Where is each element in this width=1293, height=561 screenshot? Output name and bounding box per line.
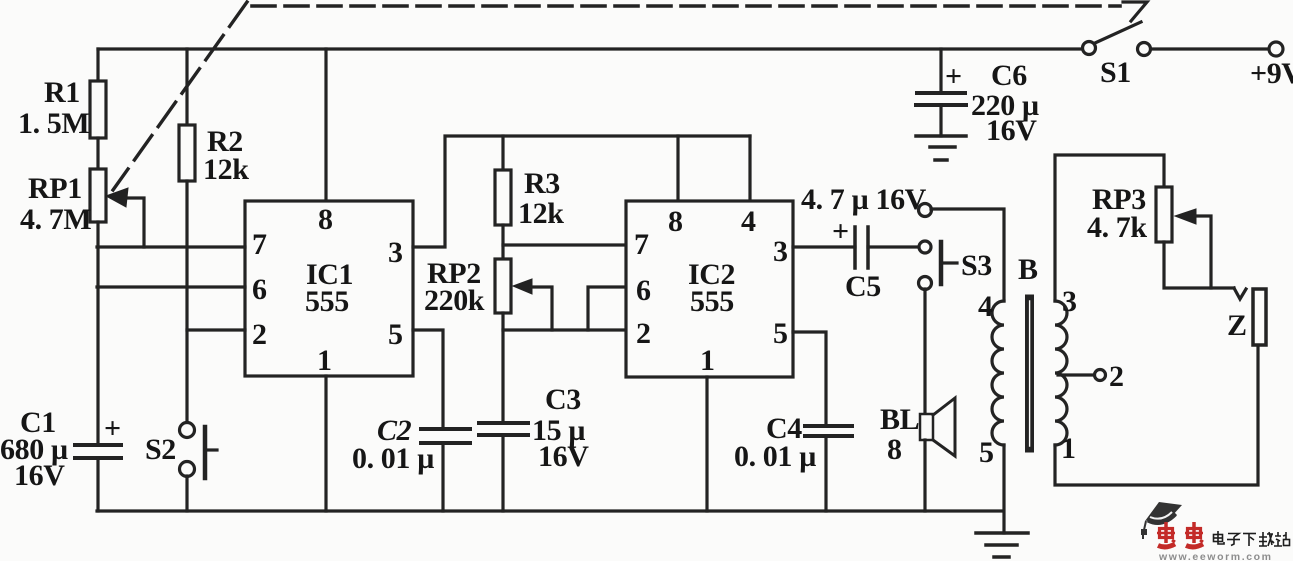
transformer B core [1025, 299, 1034, 448]
svg-text:4: 4 [978, 290, 993, 323]
jack Z body [1253, 289, 1266, 345]
capacitor C6 plates [916, 93, 966, 105]
speaker BL cone [933, 398, 955, 456]
wire RP1 wiper to pin7 line [124, 198, 144, 247]
wire IC2 pin6 jog [588, 287, 626, 330]
svg-text:B: B [1018, 253, 1038, 286]
wire speaker to ground rail [923, 440, 926, 511]
wire C6 to ground symbol [939, 105, 942, 136]
resistor R1 [90, 81, 106, 138]
svg-text:RP1: RP1 [28, 172, 82, 205]
svg-text:1. 5M: 1. 5M [18, 107, 89, 140]
svg-text:3: 3 [773, 235, 788, 268]
watermark graduation cap base [1147, 511, 1177, 524]
svg-text:6: 6 [252, 273, 267, 306]
svg-text:4. 7 µ 16V: 4. 7 µ 16V [801, 183, 927, 216]
speaker BL body [920, 414, 933, 440]
svg-text:7: 7 [252, 228, 267, 261]
wire S3 top to transformer primary [931, 209, 1004, 301]
switch S3 contact middle [919, 241, 931, 253]
capacitor C5 plates [855, 227, 868, 268]
dashed gang line diagonal to RP1 [113, 2, 247, 190]
wire left rail top [96, 49, 99, 81]
switch S3 contact top [919, 204, 932, 217]
glyph dian [1214, 535, 1223, 542]
wire S2 to ground rail [185, 476, 188, 511]
svg-text:5: 5 [979, 436, 994, 469]
dashed gang line horizontal [252, 4, 1120, 8]
svg-text:Z: Z [1227, 309, 1247, 342]
wire left rail to C1 [96, 222, 99, 445]
svg-text:12k: 12k [203, 153, 249, 186]
watermark cap tassel [1144, 521, 1146, 530]
op-amp U IC2 555 body [626, 201, 793, 377]
svg-text:3: 3 [1062, 285, 1077, 318]
wire IC2 pin5 to C4 [793, 332, 826, 426]
svg-text:220k: 220k [424, 284, 485, 317]
jack plug tip [1234, 288, 1246, 299]
glyph xia [1243, 533, 1256, 535]
svg-text:4. 7M: 4. 7M [20, 203, 91, 236]
svg-text:S2: S2 [145, 433, 176, 466]
wire IC2 pin7 line [503, 243, 626, 246]
svg-text:3: 3 [388, 236, 403, 269]
ground symbol under transformer [976, 533, 1028, 557]
wire IC1 pin6 line [97, 285, 245, 288]
svg-text:C5: C5 [845, 270, 881, 303]
svg-text:8: 8 [668, 205, 683, 238]
svg-text:16V: 16V [538, 440, 589, 473]
resistor R3 [495, 170, 511, 225]
switch S3 plunger [939, 242, 944, 284]
glyph zi [1228, 534, 1239, 538]
wire C2 to ground [441, 443, 444, 511]
wire IC2 pin2 line [503, 328, 626, 331]
svg-text:2: 2 [636, 317, 651, 350]
wire IC2 pin3 to C5 [793, 245, 855, 248]
svg-text:R3: R3 [524, 167, 560, 200]
wire R3 to RP2 [501, 225, 504, 259]
svg-text:12k: 12k [518, 197, 564, 230]
wire IC2 pin1 to ground [705, 377, 708, 511]
wire top supply rail [98, 47, 1082, 50]
svg-text:+: + [832, 215, 849, 248]
svg-text:1: 1 [317, 344, 332, 377]
wire R3 top drop [501, 136, 504, 170]
wire C4 to ground [824, 436, 827, 511]
transformer B primary winding [992, 301, 1004, 445]
svg-text:R1: R1 [44, 76, 80, 109]
potentiometer RP1 body [90, 169, 106, 222]
wire IC1 pin1 to ground [324, 376, 327, 511]
wire RP2 bottom to C3 [501, 313, 504, 423]
glyph zhan [1274, 532, 1282, 546]
svg-text:8: 8 [887, 433, 902, 466]
svg-text:8: 8 [318, 203, 333, 236]
potentiometer RP1 wiper arrow [106, 188, 128, 207]
transformer B secondary winding [1055, 301, 1067, 445]
switch S1 contact left [1083, 42, 1096, 55]
svg-text:C3: C3 [545, 383, 581, 416]
wire R2 to S2 [185, 181, 188, 423]
svg-text:S1: S1 [1100, 56, 1131, 89]
svg-text:1: 1 [1061, 432, 1076, 465]
wire +9V segment [1151, 47, 1269, 50]
capacitor C6 lead [939, 49, 942, 93]
wire IC1 pin2 line [187, 328, 245, 331]
svg-text:0. 01 µ: 0. 01 µ [352, 442, 434, 475]
dashed line end hook near S1 [1123, 2, 1147, 21]
switch S2 contact top [180, 423, 195, 438]
wire secondary tap 2 [1058, 373, 1094, 376]
watermark red char chong 2 [1185, 522, 1203, 547]
potentiometer RP2 wiper arrow [513, 279, 532, 294]
wire R1 to RP1 [96, 138, 99, 169]
watermark [1141, 502, 1290, 561]
wire R2 branch top [185, 49, 188, 125]
capacitor C2 plates [421, 429, 470, 443]
wire C1 to ground rail [96, 458, 99, 511]
ground symbol under C6 [916, 136, 966, 160]
wire C3 to ground [501, 435, 504, 511]
svg-text:7: 7 [634, 228, 649, 261]
potentiometer RP3 wiper arrow [1175, 209, 1196, 224]
svg-text:0. 01 µ: 0. 01 µ [734, 440, 816, 473]
watermark site name glyphs [1214, 531, 1290, 546]
svg-text:5: 5 [388, 318, 403, 351]
wire S3 bottom to speaker [923, 289, 926, 414]
capacitor C1 plates [75, 445, 121, 458]
wire IC1 pin8 to rail [324, 49, 327, 201]
switch S2 contact bottom [180, 462, 195, 477]
svg-text:16V: 16V [986, 114, 1037, 147]
svg-text:4: 4 [741, 205, 756, 238]
wire secondary top to RP3 [1055, 155, 1164, 301]
svg-text:C6: C6 [991, 59, 1027, 92]
svg-text:+: + [104, 412, 121, 445]
svg-text:+9V: +9V [1250, 57, 1293, 90]
glyph zai [1259, 537, 1267, 542]
wire IC2 pin4 drop [748, 136, 751, 201]
svg-text:5: 5 [773, 317, 788, 350]
wire IC1 pin7 line [97, 245, 245, 248]
wire IC1 pin3 up and across [413, 136, 750, 247]
resistor R2 [179, 125, 195, 181]
wire C5 to S3 [868, 245, 918, 248]
switch S1 lever [1095, 22, 1141, 43]
svg-text:6: 6 [636, 274, 651, 307]
potentiometer RP3 body [1156, 187, 1172, 242]
wire IC1 pin5 to C2 [413, 330, 443, 429]
svg-text:S3: S3 [961, 249, 992, 282]
wire IC2 pin8 drop [676, 136, 679, 201]
terminal +9V [1269, 42, 1283, 56]
wire bottom ground rail [97, 509, 1003, 512]
svg-text:16V: 16V [14, 459, 65, 492]
wire RP3 bottom to Z plug [1164, 242, 1234, 288]
switch S1 contact right [1138, 43, 1151, 56]
svg-text:2: 2 [252, 318, 267, 351]
wire primary bottom to ground [1002, 445, 1005, 533]
switch S3 contact bottom [919, 277, 932, 290]
svg-text:+: + [945, 60, 962, 93]
switch S2 plunger [203, 427, 208, 478]
capacitor C3 plates [479, 423, 528, 435]
svg-text:www.eeworm.com: www.eeworm.com [1158, 551, 1273, 561]
potentiometer RP2 body [495, 259, 511, 313]
svg-text:2: 2 [1109, 360, 1124, 393]
watermark red char chong 1 [1157, 522, 1175, 547]
svg-text:4. 7k: 4. 7k [1087, 211, 1147, 244]
svg-text:1: 1 [700, 344, 715, 377]
wire secondary bottom to Z [1055, 345, 1258, 485]
watermark graduation cap board [1145, 502, 1182, 521]
op-amp U IC1 555 body [245, 201, 413, 376]
svg-text:BL: BL [880, 403, 919, 436]
capacitor C4 plates [805, 426, 852, 436]
svg-text:555: 555 [690, 285, 734, 318]
svg-text:555: 555 [305, 285, 349, 318]
terminal 2 [1095, 370, 1106, 381]
